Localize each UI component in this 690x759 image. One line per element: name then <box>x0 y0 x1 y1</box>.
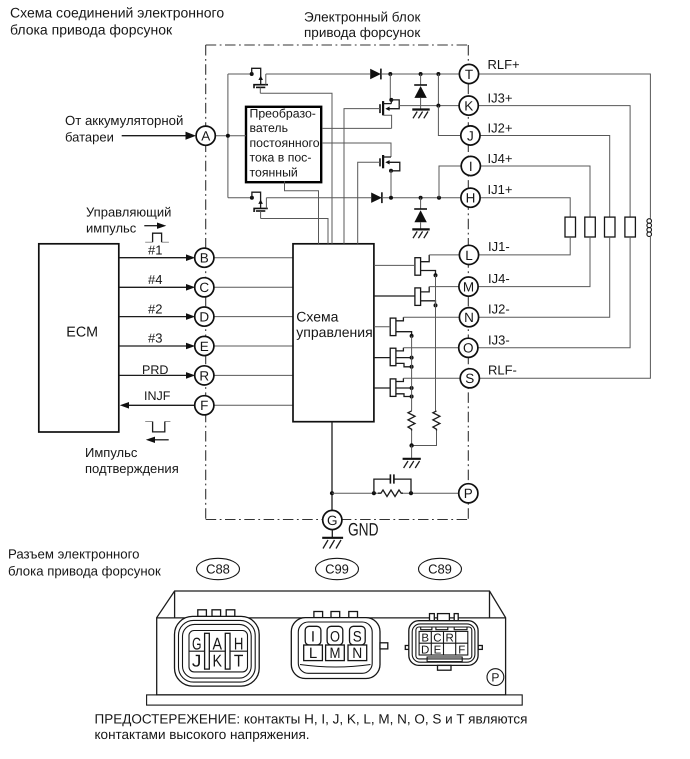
node circle I <box>461 151 512 176</box>
node circle P <box>459 484 478 503</box>
svg-text:T: T <box>465 67 473 82</box>
diode D2 <box>371 192 382 203</box>
svg-text:H: H <box>466 191 476 206</box>
caution text <box>95 711 528 742</box>
node circle T <box>459 57 519 84</box>
svg-text:IJ2+: IJ2+ <box>488 121 513 136</box>
transistor Q5 <box>374 255 438 277</box>
connector C88 drawing <box>175 610 260 686</box>
svg-text:L: L <box>465 248 473 263</box>
wire ECM #4 to C <box>119 272 195 291</box>
node circle A <box>196 126 215 145</box>
node circle F <box>195 396 214 415</box>
wire Q4 drain rail to diode D2 <box>266 197 371 199</box>
connector C89 drawing <box>405 614 482 671</box>
svg-text:#3: #3 <box>148 331 162 346</box>
node circle R <box>195 366 214 385</box>
svg-text:батареи: батареи <box>65 130 114 145</box>
svg-text:IJ2-: IJ2- <box>488 302 510 317</box>
wire node K to injector load 3 <box>478 106 630 218</box>
svg-text:P: P <box>464 486 473 501</box>
svg-text:блока привода форсунок: блока привода форсунок <box>10 22 173 38</box>
svg-text:G: G <box>192 635 202 654</box>
svg-text:I: I <box>311 629 315 646</box>
svg-text:M: M <box>330 645 341 662</box>
svg-text:C: C <box>199 280 209 295</box>
injector load 4 <box>585 217 596 237</box>
svg-text:R: R <box>445 633 453 645</box>
relay coil <box>647 218 652 237</box>
svg-text:ватель: ватель <box>250 121 288 135</box>
svg-text:IJ1-: IJ1- <box>488 239 510 254</box>
wire node T to relay coil <box>478 74 650 218</box>
wire T rail to Q2 drain <box>389 74 391 100</box>
svg-text:Схема соединений электронного: Схема соединений электронного <box>10 5 224 21</box>
svg-text:S: S <box>465 371 474 386</box>
ECU body outline <box>147 591 523 705</box>
resistor R3 with capacitor C1 parallel <box>332 474 459 496</box>
node circle C <box>195 278 214 297</box>
svg-text:ECM: ECM <box>66 325 98 341</box>
svg-text:RLF+: RLF+ <box>488 57 520 72</box>
wire source bus of Q5 Q6 down to resistor R2 <box>435 275 437 411</box>
svg-text:H: H <box>234 635 244 654</box>
svg-text:C88: C88 <box>206 562 230 577</box>
svg-text:K: K <box>213 652 223 671</box>
wire Q1 gate to control circuit <box>260 93 332 244</box>
node circle E <box>195 336 214 355</box>
svg-text:J: J <box>192 652 202 671</box>
svg-text:T: T <box>234 652 244 671</box>
svg-text:B: B <box>421 633 429 645</box>
DC-DC converter box <box>246 107 321 183</box>
pin P circle on ECU body <box>487 669 504 686</box>
wire Q9 drain to node S <box>403 377 460 379</box>
svg-text:IJ1+: IJ1+ <box>488 182 513 197</box>
svg-text:тока в пос-: тока в пос- <box>250 151 312 165</box>
svg-text:E: E <box>200 339 209 354</box>
control pulse arrow <box>144 223 166 229</box>
wire INJF from F to ECM <box>120 389 196 409</box>
svg-text:INJF: INJF <box>144 389 171 403</box>
connector label C89 <box>419 558 462 579</box>
wire Q2 to node K junction <box>399 74 460 108</box>
svg-text:N: N <box>352 645 362 662</box>
wire Q4 gate to control circuit <box>261 219 328 244</box>
svg-text:GND: GND <box>348 519 379 539</box>
svg-text:D: D <box>421 644 429 656</box>
svg-text:B: B <box>200 251 209 266</box>
injector load 3 <box>625 217 636 237</box>
confirmation pulse label <box>85 445 179 476</box>
svg-text:IJ4-: IJ4- <box>488 271 510 286</box>
wire DC-DC output upper to Q2 source <box>322 127 392 129</box>
wire injector load 3 to node O <box>478 237 630 348</box>
wire ECM #3 to E <box>119 331 195 350</box>
wire injector load 1 to node L <box>478 237 570 255</box>
svg-text:PRD: PRD <box>142 363 168 377</box>
svg-text:RLF-: RLF- <box>488 363 517 378</box>
resistor R1 <box>408 336 415 446</box>
svg-text:управления: управления <box>296 324 372 340</box>
svg-text:#2: #2 <box>148 301 162 316</box>
svg-text:тоянный: тоянный <box>250 165 298 179</box>
wire Q7 drain to node N <box>403 316 459 318</box>
zener clamp D4 with ground <box>412 198 429 239</box>
title block label <box>304 10 420 41</box>
wire ECM PRD to R <box>119 363 195 379</box>
wire D1 to node T <box>381 72 460 76</box>
node circle J <box>461 121 513 146</box>
svg-text:импульс: импульс <box>86 220 137 235</box>
svg-text:Преобразо-: Преобразо- <box>250 107 316 121</box>
transistor Q7 <box>374 317 414 338</box>
svg-text:P: P <box>491 671 499 685</box>
node A branch wires <box>215 74 252 198</box>
wire relay coil to node S <box>479 236 650 378</box>
svg-text:L: L <box>309 645 317 662</box>
svg-text:подтверждения: подтверждения <box>85 461 179 476</box>
wire Q1 drain rail to diode D1 <box>266 73 370 75</box>
svg-text:IJ3+: IJ3+ <box>488 91 513 106</box>
node circle N <box>459 302 509 327</box>
svg-text:K: K <box>464 99 473 114</box>
ground below R1 R2 <box>403 443 421 468</box>
wire node I branch to H rail <box>439 166 461 198</box>
svg-text:Разъем электронного: Разъем электронного <box>8 547 139 562</box>
GND label <box>348 519 379 539</box>
svg-text:A: A <box>201 129 210 144</box>
svg-text:C: C <box>433 633 441 645</box>
svg-text:#1: #1 <box>148 242 162 257</box>
svg-text:J: J <box>467 128 474 143</box>
wires node B..F to control circuit box <box>214 258 293 406</box>
wire injector load 2 to node N <box>478 237 609 317</box>
wire Q8 drain to node O <box>403 347 459 349</box>
control circuit box <box>293 244 374 422</box>
svg-text:A: A <box>213 635 223 654</box>
svg-text:ПРЕДОСТЕРЕЖЕНИЕ: контакты H, I: ПРЕДОСТЕРЕЖЕНИЕ: контакты H, I, J, K, L,… <box>95 711 528 726</box>
connector section header <box>8 547 161 579</box>
zener clamp D3 with ground <box>412 74 429 118</box>
svg-text:Схема: Схема <box>296 309 338 325</box>
svg-text:блока привода форсунок: блока привода форсунок <box>8 564 161 579</box>
svg-text:O: O <box>330 629 340 646</box>
svg-text:постоянного: постоянного <box>250 136 320 150</box>
svg-text:#4: #4 <box>148 272 162 287</box>
transistor Q8 <box>374 348 414 369</box>
svg-text:F: F <box>200 398 208 413</box>
ECM box <box>39 244 119 432</box>
wire Q3 source down to H rail <box>390 171 392 198</box>
svg-text:IJ3-: IJ3- <box>488 333 510 348</box>
svg-text:От аккумуляторной: От аккумуляторной <box>65 113 183 128</box>
svg-text:O: O <box>463 341 474 356</box>
wire DC-DC bottom pin to control circuit <box>285 181 319 244</box>
transistor Q3 <box>380 155 400 173</box>
svg-text:I: I <box>469 159 473 174</box>
svg-text:Импульс: Импульс <box>85 445 138 460</box>
wire D2 to node H <box>382 196 461 200</box>
svg-text:C89: C89 <box>428 562 452 577</box>
title main <box>10 5 224 38</box>
node circle D <box>195 307 214 326</box>
pulse waveform symbol #1 <box>145 233 169 242</box>
dash-dot boundary of electronic block <box>206 45 469 520</box>
svg-text:D: D <box>199 310 209 325</box>
connector label C88 <box>197 558 240 579</box>
battery label <box>65 113 183 145</box>
transistor Q4 (low high-side MOSFET left) <box>250 192 268 218</box>
node circle K <box>459 91 512 116</box>
ground below G <box>322 529 343 548</box>
wire Q3 gate to control circuit <box>358 162 380 244</box>
wire node I to injector load 4 <box>480 166 590 217</box>
transistor Q6 <box>374 287 438 308</box>
wire control circuit to ground node G <box>330 422 334 511</box>
svg-text:контактами высокого напряжения: контактами высокого напряжения. <box>95 727 310 742</box>
wire K junction down to node J <box>438 106 460 136</box>
svg-text:F: F <box>458 644 465 656</box>
node circle H <box>461 182 513 207</box>
control pulse label <box>86 205 171 236</box>
svg-text:E: E <box>434 644 442 656</box>
wire node J to injector load 2 <box>480 136 610 218</box>
transistor Q2 <box>380 98 399 128</box>
injector load 1 <box>565 217 576 237</box>
wire Q6 drain to node M <box>429 286 459 288</box>
svg-text:M: M <box>463 280 474 295</box>
diode D1 <box>370 69 381 80</box>
node circle O <box>459 333 510 358</box>
wire Q2 gate to control circuit <box>344 109 380 244</box>
wire ECM #1 to B <box>119 242 195 261</box>
wire node H to injector load 1 <box>480 198 570 217</box>
node circle B <box>195 248 214 267</box>
svg-text:R: R <box>199 368 209 383</box>
node circle M <box>459 271 510 296</box>
svg-text:G: G <box>327 513 338 528</box>
confirmation pulse arrow <box>146 437 169 443</box>
wire injector load 4 to node M <box>478 237 590 287</box>
svg-text:C99: C99 <box>325 562 349 577</box>
wire Q5 drain to node L <box>429 254 460 256</box>
connector label C99 <box>316 558 359 579</box>
connector C99 drawing <box>291 612 388 679</box>
injector load 2 <box>605 217 616 237</box>
transistor Q9 <box>374 378 414 398</box>
svg-text:Управляющий: Управляющий <box>86 205 171 220</box>
resistor R2 <box>412 411 440 446</box>
battery feed wire with arrow into node A <box>122 132 196 140</box>
node circle L <box>459 239 509 265</box>
transistor Q1 (high-side MOSFET top-left) <box>250 68 268 93</box>
node G circle <box>323 510 342 529</box>
svg-text:привода форсунок: привода форсунок <box>304 25 420 40</box>
svg-text:IJ4+: IJ4+ <box>488 151 513 166</box>
node circle S <box>460 363 517 388</box>
svg-text:N: N <box>464 310 474 325</box>
wire DC-DC output lower to Q3 drain <box>322 143 391 157</box>
svg-text:Электронный блок: Электронный блок <box>304 10 420 25</box>
wire ECM #2 to D <box>119 301 195 320</box>
confirmation pulse waveform symbol <box>145 422 170 432</box>
svg-text:S: S <box>353 629 362 646</box>
